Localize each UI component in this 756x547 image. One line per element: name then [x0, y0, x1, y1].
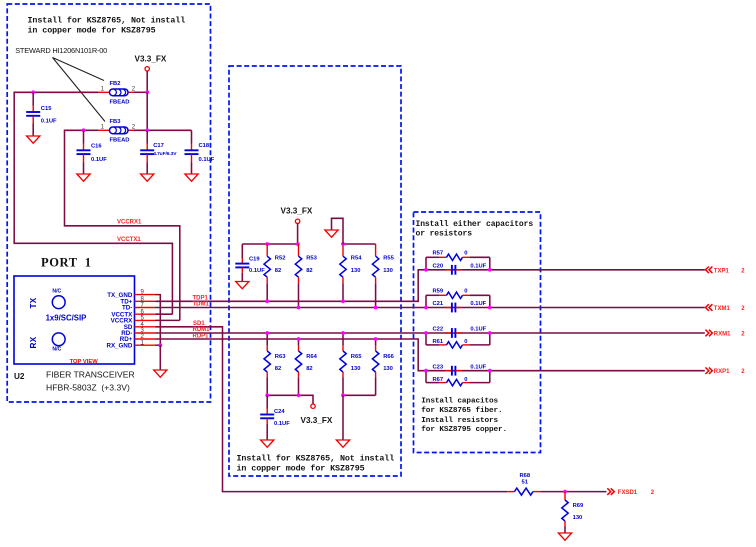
svg-text:51: 51 — [522, 480, 529, 486]
svg-text:in copper mode for KSZ8795: in copper mode for KSZ8795 — [28, 26, 156, 36]
pin 1 of FB3 — [101, 125, 105, 131]
svg-text:R55: R55 — [383, 256, 394, 262]
capacitor C16 — [77, 130, 91, 174]
svg-text:0.1UF: 0.1UF — [249, 268, 265, 274]
pin 8 TD+ of U2 — [120, 296, 155, 305]
refdes U2 — [14, 372, 25, 381]
resistor R67 — [426, 379, 490, 385]
svg-text:Install for KSZ8765, Not insta: Install for KSZ8765, Not install — [28, 16, 186, 26]
value 130 of R65 — [351, 366, 361, 372]
svg-text:C16: C16 — [91, 144, 102, 150]
value 82 of R53 — [306, 268, 312, 274]
junction right C22 — [488, 331, 492, 335]
wire V3.3 to rail — [297, 224, 299, 245]
junction right C20 — [488, 268, 492, 272]
value 0.1UF of C15 — [41, 119, 57, 125]
svg-text:FB2: FB2 — [110, 81, 121, 87]
label RDM1 — [193, 327, 211, 333]
label FB3 — [110, 119, 122, 125]
note box 2 (termination resistors section) — [229, 66, 401, 476]
svg-text:82: 82 — [275, 366, 281, 372]
svg-text:TDP1: TDP1 — [193, 295, 209, 301]
resistor R52 — [264, 244, 270, 301]
capacitor C15 — [26, 92, 40, 136]
capacitor C17 — [140, 130, 154, 174]
value 82 of R52 — [275, 268, 281, 274]
svg-text:FXSD1: FXSD1 — [618, 490, 638, 496]
rail wire C19-R52-R53 — [242, 243, 298, 245]
label TDM1 — [193, 302, 210, 308]
net RDP1 wire pin2 to coupling pair — [156, 339, 705, 371]
wire FB2 pin2 to V3.3 node — [133, 91, 147, 93]
capacitor C23 — [445, 366, 462, 376]
title PORT 1 — [41, 256, 92, 270]
junction R66 top on RDP1 — [374, 337, 378, 341]
ferrite bead FB2 — [98, 89, 133, 96]
label VCCRX1 — [117, 220, 142, 226]
svg-text:0.1UF: 0.1UF — [91, 157, 107, 163]
label R64 — [306, 354, 317, 360]
label TOP VIEW — [70, 359, 99, 365]
label C22 — [433, 327, 444, 333]
svg-text:C17: C17 — [153, 143, 164, 149]
value 0 of R61 — [464, 339, 467, 345]
label R54 — [351, 256, 362, 262]
pin 4 SD of U2 — [124, 322, 156, 331]
resistor R63 — [264, 333, 270, 395]
junction C16 tap — [82, 128, 86, 132]
pin 2 RD+ of U2 — [120, 334, 156, 343]
label R53 — [306, 256, 317, 262]
junction FB3/C17 node — [145, 128, 149, 132]
junction FB2/V3.3 — [145, 90, 149, 94]
svg-text:R69: R69 — [573, 503, 584, 509]
svg-text:C21: C21 — [433, 301, 444, 307]
junction left C22 — [424, 331, 428, 335]
label R66 — [383, 354, 394, 360]
svg-text:82: 82 — [306, 268, 312, 274]
value 51 of R68 — [522, 480, 529, 486]
power V3.3_FX (middle top) — [281, 207, 313, 224]
value 130 of R66 — [383, 366, 393, 372]
svg-text:U2: U2 — [14, 372, 25, 381]
label R61 — [433, 339, 444, 345]
net VCCRX1 wire (FB3 left / down / across) — [65, 130, 180, 320]
capacitor C20 — [445, 265, 462, 275]
junction R54 bottom on TDP1 — [341, 299, 345, 303]
off-page connector RXP1 — [705, 367, 745, 375]
svg-text:FBEAD: FBEAD — [110, 100, 130, 106]
svg-text:R68: R68 — [520, 473, 531, 479]
label R69 — [573, 503, 584, 509]
svg-text:N/C: N/C — [52, 347, 61, 353]
svg-text:0.1UF: 0.1UF — [274, 421, 290, 427]
svg-text:130: 130 — [573, 515, 583, 521]
resistor R57 — [426, 254, 490, 260]
pin 1 of FB2 — [101, 87, 105, 93]
junction R52 bottom on TDP1 — [265, 299, 269, 303]
pin 7 TD- of U2 — [122, 303, 156, 312]
junction R64 bottom — [297, 393, 301, 397]
svg-text:N/C: N/C — [52, 288, 61, 294]
ground below R69 — [558, 533, 571, 540]
label C17 — [153, 143, 164, 149]
net TDP1 wire pin8 to coupling pair — [156, 270, 705, 302]
coupling loop R67/C23 — [426, 371, 490, 383]
svg-text:130: 130 — [383, 268, 393, 274]
junction left C21 — [424, 306, 428, 310]
label R63 — [275, 354, 286, 360]
svg-text:C15: C15 — [41, 106, 52, 112]
wire RX_GND pin1 — [156, 344, 161, 346]
svg-text:130: 130 — [351, 268, 361, 274]
label R65 — [351, 354, 362, 360]
value FBEAD of FB2 — [110, 100, 130, 106]
power V3.3_FX (left) — [135, 55, 167, 72]
note text install either capacitors — [416, 220, 534, 239]
svg-text:130: 130 — [383, 366, 393, 372]
svg-text:RXP1: RXP1 — [714, 369, 730, 375]
svg-text:RX: RX — [29, 336, 38, 348]
svg-text:R65: R65 — [351, 354, 362, 360]
svg-text:C24: C24 — [274, 409, 285, 415]
coupling loop R59/C21 — [426, 295, 490, 307]
svg-text:HFBR-5803Z (+3.3V): HFBR-5803Z (+3.3V) — [46, 383, 130, 393]
value 0.1UF of C23 — [470, 364, 486, 370]
TX lens circle — [52, 296, 65, 309]
ground below C18 — [185, 174, 198, 181]
junction R63 bottom — [265, 393, 269, 397]
svg-text:C19: C19 — [249, 256, 260, 262]
pin 1 RX_GND of U2 — [107, 340, 156, 349]
svg-text:130: 130 — [351, 366, 361, 372]
ground below C19 — [236, 282, 249, 289]
wire FB3 pin2 across to C18 — [133, 129, 191, 131]
svg-text:R57: R57 — [433, 251, 444, 257]
svg-text:or resistors: or resistors — [416, 229, 473, 238]
svg-text:for KSZ8765 fiber.: for KSZ8765 fiber. — [421, 407, 502, 415]
net TDM1 wire pin7 across — [156, 307, 705, 309]
label C21 — [433, 301, 444, 307]
svg-text:82: 82 — [306, 366, 312, 372]
off-page connector RXM1 — [705, 330, 745, 338]
svg-text:C23: C23 — [433, 364, 444, 370]
svg-text:RX_GND: RX_GND — [107, 342, 133, 349]
svg-text:0.1UF: 0.1UF — [199, 157, 215, 163]
note box 1 (fiber transceiver section) — [7, 4, 210, 402]
value 82 of R63 — [275, 366, 281, 372]
pin 2 of FB3 — [132, 125, 136, 131]
RX lens circle — [52, 333, 65, 346]
ground (middle box top) — [325, 230, 338, 237]
junction R55 bottom on TDM1 — [374, 306, 378, 310]
svg-text:0.1UF: 0.1UF — [470, 264, 486, 270]
resistor R69 — [562, 492, 568, 533]
svg-text:Install either capacitors: Install either capacitors — [416, 220, 534, 229]
junction R52 top — [265, 242, 269, 246]
fiber transceiver U2 body — [14, 276, 135, 364]
junction R69 tap — [563, 490, 567, 494]
label 1x9/SC/SIP — [46, 313, 87, 322]
junction R53/V3.3 top — [296, 242, 300, 246]
rail wire R63-R64 bottom — [267, 395, 313, 404]
svg-text:RDP1: RDP1 — [193, 333, 210, 339]
svg-text:0: 0 — [464, 289, 467, 295]
label N/C below RX lens — [52, 347, 61, 353]
svg-text:R52: R52 — [275, 256, 286, 262]
label C24 — [274, 409, 285, 415]
junction R63 top on RDM1 — [265, 331, 269, 335]
coupling loop R61/C22 — [426, 333, 490, 345]
resistor R66 — [372, 339, 378, 395]
off-page connector FXSD1 — [607, 488, 655, 496]
ground below U2 — [154, 345, 167, 377]
capacitor C18 — [185, 130, 199, 174]
svg-text:C22: C22 — [433, 327, 444, 333]
label VCCTX1 — [117, 237, 141, 243]
svg-text:C20: C20 — [433, 264, 444, 270]
resistor R61 — [426, 342, 490, 348]
off-page connector TXP1 — [706, 267, 746, 275]
label STEWARD HI1206N101R-00 — [15, 46, 107, 55]
ferrite bead FB3 — [98, 127, 133, 134]
svg-text:V3.3_FX: V3.3_FX — [135, 55, 167, 64]
junction R65 bottom — [341, 393, 345, 397]
wire VCCRX pin5 jog — [156, 319, 180, 321]
label R59 — [433, 289, 444, 295]
wire V3.3 vertical FB2 to FB3 — [146, 92, 148, 130]
junction left C23 — [424, 369, 428, 373]
svg-text:0.1UF: 0.1UF — [470, 327, 486, 333]
value 130 of R55 — [383, 268, 393, 274]
junction left C20 — [424, 268, 428, 272]
power V3.3_FX (middle bottom) — [301, 404, 333, 425]
ground loop wire — [332, 218, 344, 244]
svg-text:TXM1: TXM1 — [714, 306, 731, 312]
label SD1 — [193, 321, 205, 327]
svg-text:FB3: FB3 — [110, 119, 122, 125]
svg-text:Install capacitos: Install capacitos — [421, 397, 498, 405]
label R67 — [433, 377, 444, 383]
rail wire R54-R55 — [343, 243, 376, 245]
svg-text:R63: R63 — [275, 354, 286, 360]
svg-text:0.1UF: 0.1UF — [470, 301, 486, 307]
svg-text:VCCRX1: VCCRX1 — [117, 220, 142, 226]
note text install KSZ8765 (left box) — [28, 16, 186, 36]
svg-text:RXM1: RXM1 — [714, 332, 731, 338]
resistor R68 — [507, 488, 606, 495]
resistor R53 — [295, 244, 301, 308]
svg-text:R64: R64 — [306, 354, 317, 360]
value 4.7uF/6.3V of C17 — [153, 151, 177, 157]
junction pin1/pin9 ground — [158, 343, 162, 347]
svg-text:Install resistors: Install resistors — [421, 417, 498, 425]
ground below C24 — [261, 440, 274, 447]
svg-text:R53: R53 — [306, 256, 317, 262]
junction right C23 — [488, 369, 492, 373]
leader line to FB3 — [53, 58, 106, 122]
junction C15 tap — [31, 90, 35, 94]
label FB2 — [110, 81, 121, 87]
capacitor C22 — [445, 328, 462, 338]
svg-text:V3.3_FX: V3.3_FX — [301, 416, 333, 425]
svg-text:Install for KSZ8765, Not insta: Install for KSZ8765, Not install — [237, 454, 395, 464]
label C19 — [249, 256, 260, 262]
ground below C17 — [141, 174, 154, 181]
value HFBR-5803Z (+3.3V) — [46, 383, 130, 393]
resistor R64 — [295, 339, 301, 395]
svg-text:RDM1: RDM1 — [193, 327, 211, 333]
value 0 of R57 — [464, 251, 467, 257]
label R57 — [433, 251, 444, 257]
label R55 — [383, 256, 394, 262]
junction R65 top on RDM1 — [341, 331, 345, 335]
label C15 — [41, 106, 52, 112]
net RDM1 wire pin3 across — [156, 332, 705, 334]
svg-text:0.1UF: 0.1UF — [41, 119, 57, 125]
coupling loop R57/C20 — [426, 257, 490, 270]
label C16 — [91, 144, 102, 150]
junction R53 bottom on TDM1 — [297, 306, 301, 310]
wire VCCTX pin6 jog — [156, 313, 173, 315]
label N/C above TX lens — [52, 288, 61, 294]
svg-text:1x9/SC/SIP: 1x9/SC/SIP — [46, 313, 87, 322]
value 0.1UF of C21 — [470, 301, 486, 307]
value 0.1UF of C19 — [249, 268, 265, 274]
rail wire R65-R66 bottom — [343, 394, 376, 396]
svg-text:FIBER TRANSCEIVER: FIBER TRANSCEIVER — [46, 370, 135, 380]
value FBEAD of FB3 — [110, 138, 130, 144]
label C20 — [433, 264, 444, 270]
junction right C21 — [488, 306, 492, 310]
svg-text:R54: R54 — [351, 256, 362, 262]
capacitor C21 — [445, 303, 462, 313]
svg-text:in copper mode for KSZ8795: in copper mode for KSZ8795 — [237, 464, 365, 474]
resistor R55 — [372, 244, 378, 308]
pin 3 RD- of U2 — [121, 328, 155, 337]
value 0.1UF of C22 — [470, 327, 486, 333]
value 0.1UF of C24 — [274, 421, 290, 427]
capacitor C24 — [260, 395, 274, 440]
leader line to FB2 — [53, 58, 105, 81]
wire V3.3_FX to FB2 — [146, 71, 148, 92]
pin 6 VCCTX of U2 — [111, 309, 155, 318]
label TX (rotated) — [29, 297, 38, 308]
value 0.1UF of C18 — [199, 157, 215, 163]
svg-text:for KSZ8795 copper.: for KSZ8795 copper. — [421, 426, 507, 434]
pin 5 VCCRX of U2 — [111, 316, 156, 325]
resistor R59 — [426, 292, 490, 298]
note text install KSZ8765 (middle box) — [237, 454, 395, 474]
resistor R65 — [340, 333, 346, 395]
value 130 of R54 — [351, 268, 361, 274]
label RX (rotated) — [29, 336, 38, 348]
capacitor C19 — [235, 244, 249, 282]
label FIBER TRANSCEIVER — [46, 370, 135, 380]
svg-text:R67: R67 — [433, 377, 444, 383]
svg-text:0: 0 — [464, 251, 467, 257]
svg-text:R59: R59 — [433, 289, 444, 295]
ground below C16 — [77, 174, 90, 181]
svg-text:R61: R61 — [433, 339, 444, 345]
svg-text:R66: R66 — [383, 354, 394, 360]
label TDP1 — [193, 295, 209, 301]
svg-text:PORT 1: PORT 1 — [41, 256, 92, 270]
svg-text:TXP1: TXP1 — [714, 268, 730, 274]
resistor R54 — [340, 244, 346, 301]
svg-text:TX: TX — [29, 297, 38, 308]
value 0.1UF of C20 — [470, 264, 486, 270]
svg-text:0.1UF: 0.1UF — [470, 364, 486, 370]
svg-text:82: 82 — [275, 268, 281, 274]
value 130 of R69 — [573, 515, 583, 521]
ground below R65 — [336, 395, 349, 447]
pin 9 TX_GND of U2 — [107, 290, 155, 299]
note text install capacitos (right box) — [421, 397, 507, 434]
svg-text:STEWARD HI1206N101R-00: STEWARD HI1206N101R-00 — [15, 46, 107, 55]
svg-text:V3.3_FX: V3.3_FX — [281, 207, 313, 216]
net VCCTX1 wire (FB2 left / down / across) — [14, 92, 172, 314]
pin 2 of FB2 — [132, 87, 136, 93]
svg-text:FBEAD: FBEAD — [110, 138, 130, 144]
value 0 of R59 — [464, 289, 467, 295]
off-page connector TXM1 — [706, 304, 746, 312]
svg-text:C18: C18 — [199, 143, 210, 149]
net SD wire pin4 down to R68 — [156, 327, 508, 492]
label RDP1 — [193, 333, 210, 339]
svg-text:0: 0 — [464, 377, 467, 383]
ground below C15 — [27, 136, 40, 143]
value 0.1UF of C16 — [91, 157, 107, 163]
label R52 — [275, 256, 286, 262]
note box 3 (AC-coupling section) — [414, 212, 541, 453]
label R68 — [520, 473, 531, 479]
svg-text:0: 0 — [464, 339, 467, 345]
svg-text:TDM1: TDM1 — [193, 302, 210, 308]
svg-text:4.7uF/6.3V: 4.7uF/6.3V — [153, 151, 177, 157]
label C23 — [433, 364, 444, 370]
junction R64 top on RDP1 — [297, 337, 301, 341]
junction R54 top / ground loop — [341, 242, 345, 246]
value 82 of R64 — [306, 366, 312, 372]
svg-text:TOP VIEW: TOP VIEW — [70, 359, 99, 365]
value 0 of R67 — [464, 377, 467, 383]
label C18 — [199, 143, 210, 149]
svg-text:SD1: SD1 — [193, 321, 205, 327]
svg-text:VCCTX1: VCCTX1 — [117, 237, 141, 243]
wire TX_GND pin9 to ground rail — [156, 295, 161, 346]
